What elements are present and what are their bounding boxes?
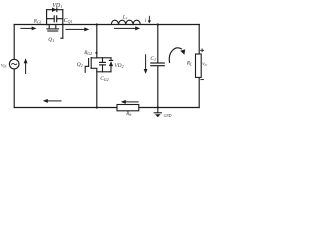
wire cap branch right [57, 18, 63, 20]
minus sign [200, 79, 204, 81]
plus sign [200, 48, 204, 52]
source V_in [9, 59, 19, 69]
arrow down (cap current) [144, 54, 148, 74]
curved arrow v_o loop [169, 48, 182, 63]
svg-text:GND: GND [164, 114, 172, 118]
wire diode branch [47, 9, 63, 11]
wire loop left edge [46, 10, 48, 25]
arrow right on top rail (left) [20, 27, 36, 31]
wire top connector [97, 57, 111, 59]
arrow up beside source [24, 58, 28, 74]
wire left vertical lower [13, 69, 15, 108]
capacitor C_Q1 plates [54, 15, 57, 22]
node C1 at bottom rail [157, 106, 159, 108]
wire top rail [14, 24, 199, 26]
diode VD1 [52, 7, 57, 12]
node at rail/Q2 branch [96, 23, 98, 25]
wire diode VD2 branch [110, 58, 112, 61]
capacitor C1 plates [150, 63, 165, 66]
Q1 snubber loop [47, 10, 63, 39]
wire bottom rail [14, 107, 199, 109]
ground [154, 108, 162, 113]
resistor R_L box [196, 54, 202, 77]
wire left vertical upper [13, 25, 15, 60]
arrow right on top rail (after Q1) [66, 27, 90, 31]
wire loop right edge + Q1 gate stub [62, 10, 64, 39]
svg-text:Rb: Rb [125, 112, 131, 117]
Q2 parallel network connectors [97, 58, 111, 72]
wire right vertical upper [198, 25, 200, 55]
node Q2 source at bottom rail [96, 106, 98, 108]
resistor R_b box [117, 105, 139, 111]
wire cap branch left [47, 18, 54, 20]
wire bottom connector [97, 71, 111, 73]
wire C1 branch upper [157, 25, 159, 63]
transistor Q1 [47, 25, 59, 32]
wire cap C_G2 branch [102, 58, 104, 63]
node at rail/C1 branch [157, 23, 159, 25]
wire Q2 branch vertical [96, 25, 98, 58]
diode VD2 [109, 60, 114, 66]
wire C1 branch lower [157, 66, 159, 107]
arrow left on bottom rail [43, 99, 62, 103]
arrow right under inductor [114, 26, 140, 30]
node loop right on rail [62, 24, 64, 26]
node R_G2 [95, 52, 97, 54]
inductor L_r [111, 20, 140, 24]
arrow left above R_b [121, 100, 139, 104]
transistor Q2 [85, 58, 97, 73]
wire Q2 source down to bottom rail [96, 68, 98, 107]
capacitor C_G2 plates [99, 62, 106, 65]
node loop left on rail [46, 24, 48, 26]
wire right vertical lower [198, 77, 200, 107]
